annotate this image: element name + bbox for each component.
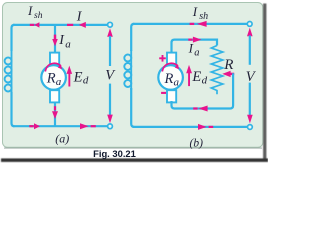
node bottom right (b) xyxy=(248,125,253,130)
svg-text:(b): (b) xyxy=(190,138,204,150)
svg-text:sh: sh xyxy=(199,11,208,22)
arrow Ia current (a) xyxy=(52,35,58,47)
shunt field coil (a) xyxy=(5,50,12,95)
brush bottom (b) xyxy=(167,90,176,102)
svg-text:a: a xyxy=(56,76,62,88)
svg-text:a: a xyxy=(194,48,199,59)
svg-text:E: E xyxy=(73,69,83,85)
wire V lower segment (a) xyxy=(109,84,111,116)
panel bottom shadow line xyxy=(4,147,262,150)
arrow V top (b) xyxy=(247,28,253,37)
arrow V top (a) xyxy=(107,28,113,37)
arrow V bottom (a) xyxy=(107,115,113,124)
arrow Ed emf (a) xyxy=(67,66,73,87)
svg-text:a: a xyxy=(65,38,71,50)
arrow bottom rail (b) xyxy=(198,124,213,130)
armature circle Ra (b) xyxy=(158,65,183,90)
wire left vertical (b) xyxy=(131,24,134,51)
rheostat tap arrow (b) xyxy=(222,71,234,77)
node top right (a) xyxy=(108,22,113,27)
node bottom right (a) xyxy=(108,124,113,129)
svg-text:d: d xyxy=(202,74,208,86)
arrow I current (a) xyxy=(67,22,86,28)
wire left vertical (a) xyxy=(12,25,15,51)
arrow Ia current (b) xyxy=(188,37,201,43)
armature circle Ra (a) xyxy=(41,65,66,90)
svg-text:a: a xyxy=(174,76,180,88)
scan edge bar right xyxy=(263,4,266,160)
plus polarity mark (b) xyxy=(159,55,166,62)
arrow Ish current (b) xyxy=(190,21,207,27)
svg-text:(a): (a) xyxy=(55,132,69,146)
wire armature top stem (a) xyxy=(54,25,56,54)
brush top (b) xyxy=(167,53,176,65)
svg-text:R: R xyxy=(46,71,56,87)
wire top rail (b) xyxy=(133,23,247,25)
svg-text:R: R xyxy=(164,71,174,87)
wire V upper segment (a) xyxy=(109,36,111,66)
wire tap return loop (b) xyxy=(172,73,234,108)
wire left vertical lower (a) xyxy=(12,92,15,126)
svg-text:sh: sh xyxy=(34,11,43,21)
arrow bottom rail right (a) xyxy=(80,123,96,129)
svg-text:E: E xyxy=(191,69,201,85)
wire V upper segment (b) xyxy=(249,35,251,64)
wire V lower segment (b) xyxy=(249,83,251,115)
node top right (b) xyxy=(247,22,252,27)
wire bottom rail (a) xyxy=(13,125,107,127)
bottom rule xyxy=(1,158,268,162)
resistor R zigzag (b) xyxy=(211,46,223,95)
arrow V bottom (b) xyxy=(247,115,253,124)
arrow bottom rail left (a) xyxy=(29,123,40,129)
svg-text:I: I xyxy=(192,4,198,19)
wire armature top stem and link to R (b) xyxy=(172,40,218,54)
wire bottom rail (b) xyxy=(133,126,248,128)
arrow Ish current (a) xyxy=(30,22,40,27)
wire armature bottom stem (a) xyxy=(54,102,56,126)
wire top rail (a) xyxy=(13,24,107,26)
brush bottom (a) xyxy=(50,90,59,102)
page background xyxy=(0,0,268,165)
svg-text:I: I xyxy=(27,3,33,18)
brush top (a) xyxy=(50,53,59,65)
figure panel background xyxy=(3,3,263,148)
rotation arrow inside armature (b) xyxy=(162,63,178,71)
svg-text:I: I xyxy=(188,41,194,56)
wire left vertical lower (b) xyxy=(131,88,134,127)
shunt field coil (b) xyxy=(124,50,131,90)
svg-text:R: R xyxy=(223,57,233,73)
arrow Ed emf (b) xyxy=(186,65,192,86)
svg-text:Fig. 30.21: Fig. 30.21 xyxy=(93,148,136,159)
svg-text:d: d xyxy=(83,75,89,87)
minus polarity mark (b) xyxy=(161,92,166,94)
arrow loop current (b) xyxy=(193,106,207,112)
arrow armature return current (a) xyxy=(52,106,58,119)
rotation arrow inside armature (a) xyxy=(45,63,61,71)
